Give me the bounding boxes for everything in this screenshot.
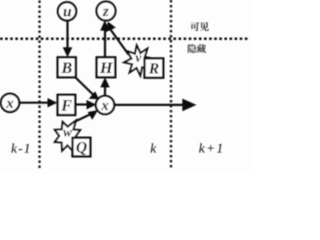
star burst w process noise <box>55 121 81 151</box>
wire x(k-1) to F <box>19 102 49 104</box>
wire x to next step k+1 <box>114 104 184 106</box>
block Q process noise covariance <box>73 138 91 157</box>
dotted vertical divider line between k and k+1 columns <box>170 0 172 169</box>
label k <box>151 143 157 152</box>
arrowhead into H from x <box>100 77 109 87</box>
wire F to x <box>76 103 90 105</box>
arrowhead into z from H <box>100 20 109 30</box>
block B control matrix <box>58 57 76 77</box>
label k+1 <box>199 143 205 152</box>
label k-1 <box>11 143 17 152</box>
star burst v measurement noise <box>124 45 153 75</box>
node u control input circle <box>58 2 76 20</box>
arrowhead into z from star R <box>105 22 116 33</box>
block H observation matrix <box>97 57 116 77</box>
dotted vertical divider line between k-1 and k columns <box>38 1 40 169</box>
wire H to z <box>104 26 106 57</box>
node x state circle at k <box>96 96 114 114</box>
arrowhead into x from B <box>89 91 99 99</box>
arrowhead into B <box>63 47 73 57</box>
wire star Q to x <box>77 113 95 121</box>
dotted horizontal divider line between visible and hidden rows <box>0 37 250 40</box>
arrowhead into F <box>48 98 58 107</box>
arrowhead of output arrow <box>182 99 196 112</box>
arrowhead into x from F <box>87 100 97 109</box>
label visible (kejian) <box>190 22 208 31</box>
wire u to B <box>66 21 68 50</box>
wire B to x <box>75 77 96 97</box>
wire x to H <box>104 85 106 96</box>
label hidden (yincang) <box>188 44 206 53</box>
node x state circle at k-1 <box>1 94 19 112</box>
block F state transition matrix <box>58 95 76 115</box>
node z measurement circle <box>97 2 116 21</box>
wire star R to z <box>111 30 129 55</box>
arrowhead into x from star Q <box>88 110 98 120</box>
block R measurement noise covariance <box>145 58 164 77</box>
